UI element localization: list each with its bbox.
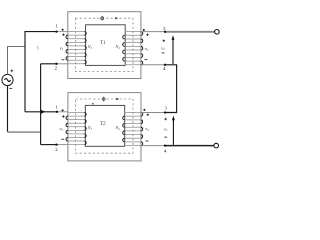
output terminal bottom	[214, 143, 219, 148]
junction dot T1 terminal1	[55, 30, 57, 32]
polarity dot T2 primary	[62, 109, 64, 111]
winding T1 primary N1	[68, 32, 85, 64]
junction dot T2 terminal2	[55, 143, 57, 145]
wire source bottom horizontal	[8, 131, 41, 133]
wire T2 terminal3 to box	[141, 112, 165, 114]
wire T2 terminal4 to output	[165, 145, 214, 147]
polarity dot T2 secondary	[143, 109, 145, 111]
wire T1 terminal4 from box	[141, 64, 165, 66]
wire left bus terminal1	[25, 32, 57, 112]
transformer T1 core	[86, 25, 126, 66]
svg-text:e2: e2	[145, 126, 149, 132]
flux arrowhead T1	[115, 17, 118, 19]
svg-text:i1: i1	[37, 45, 40, 51]
wire T1.4 to T2.3 series link	[165, 65, 177, 113]
ac source VS	[2, 74, 13, 85]
wire T1 terminal2 to box	[57, 63, 68, 65]
svg-text:T1: T1	[100, 40, 106, 46]
svg-text:v2: v2	[164, 126, 168, 132]
minus sign e1 T1	[62, 59, 65, 61]
junction dot T1 terminal3	[164, 31, 166, 33]
plus sign e2 T2	[147, 114, 150, 117]
wire T1 terminal3 from box	[141, 31, 165, 33]
polarity dot T1 secondary	[143, 29, 145, 31]
voltage arrow T2 secondary	[172, 116, 175, 145]
wire T2 terminal1	[25, 111, 57, 113]
minus sign e1 T2	[61, 138, 64, 140]
svg-text:e2: e2	[145, 46, 149, 52]
flux arrowhead T2	[116, 98, 119, 100]
winding T2 primary N1	[68, 113, 85, 145]
svg-text:N2: N2	[114, 44, 120, 50]
plus sign v2 T2	[164, 118, 167, 121]
svg-text:N1: N1	[87, 44, 93, 50]
svg-text:T2: T2	[100, 121, 106, 127]
plus sign source	[11, 70, 14, 73]
junction dot T1 terminal2	[55, 63, 57, 65]
transformer T2 core	[85, 105, 124, 146]
junction dot T2 terminal4	[164, 144, 166, 146]
transformer T2 outer case box	[68, 93, 141, 161]
transformer T1 outer case box	[68, 12, 141, 79]
minus sign source	[9, 87, 12, 89]
wire T2 terminal1 to box	[57, 111, 68, 113]
transformer T2 dashed flux boundary box	[76, 99, 133, 153]
transformer T1 dashed flux boundary box	[75, 18, 133, 71]
flux symbol phi T2	[102, 97, 105, 102]
junction dot T2 terminal3	[164, 111, 166, 113]
plus sign e2 T1	[146, 34, 149, 37]
minus sign v2 T2	[164, 136, 167, 138]
wire right bus T1.2 to T2.2	[40, 64, 42, 145]
junction dot T2 terminal1	[56, 111, 58, 113]
plus sign v2 T1	[163, 40, 166, 43]
wire T1 terminal2	[41, 63, 57, 65]
minus sign e2 T1	[145, 58, 148, 60]
flux symbol phi T1	[101, 16, 104, 21]
wire source bottom	[7, 86, 9, 133]
svg-text:v2: v2	[161, 45, 165, 51]
plus sign e1 T1	[62, 34, 65, 37]
svg-text:e1: e1	[60, 45, 64, 51]
wire T2 terminal2	[41, 144, 57, 146]
wire T2 terminal4 from box	[141, 145, 165, 147]
minus sign v2 T1	[162, 52, 165, 54]
junction dot T1 terminal4	[164, 64, 166, 66]
polarity dot T1 primary	[62, 29, 64, 31]
voltage arrow T1 secondary	[172, 35, 175, 64]
winding T1 secondary N2	[125, 32, 141, 65]
wire T2 terminal2 to box	[57, 144, 68, 146]
plus sign e1 T2	[62, 115, 65, 118]
svg-text:e1: e1	[60, 126, 64, 132]
wire source top to bus	[8, 47, 26, 75]
minus sign e2 T2	[146, 140, 149, 142]
output terminal top	[215, 30, 220, 35]
svg-text:N2: N2	[114, 125, 120, 131]
wire T1 terminal3 to output	[165, 31, 214, 33]
wire T1 terminal1 to box	[57, 31, 68, 33]
svg-text:N1: N1	[87, 125, 93, 131]
tiny label near T2 core top	[92, 103, 94, 105]
current arrowhead into T2.1	[41, 110, 45, 114]
winding T2 secondary N2	[125, 113, 141, 146]
